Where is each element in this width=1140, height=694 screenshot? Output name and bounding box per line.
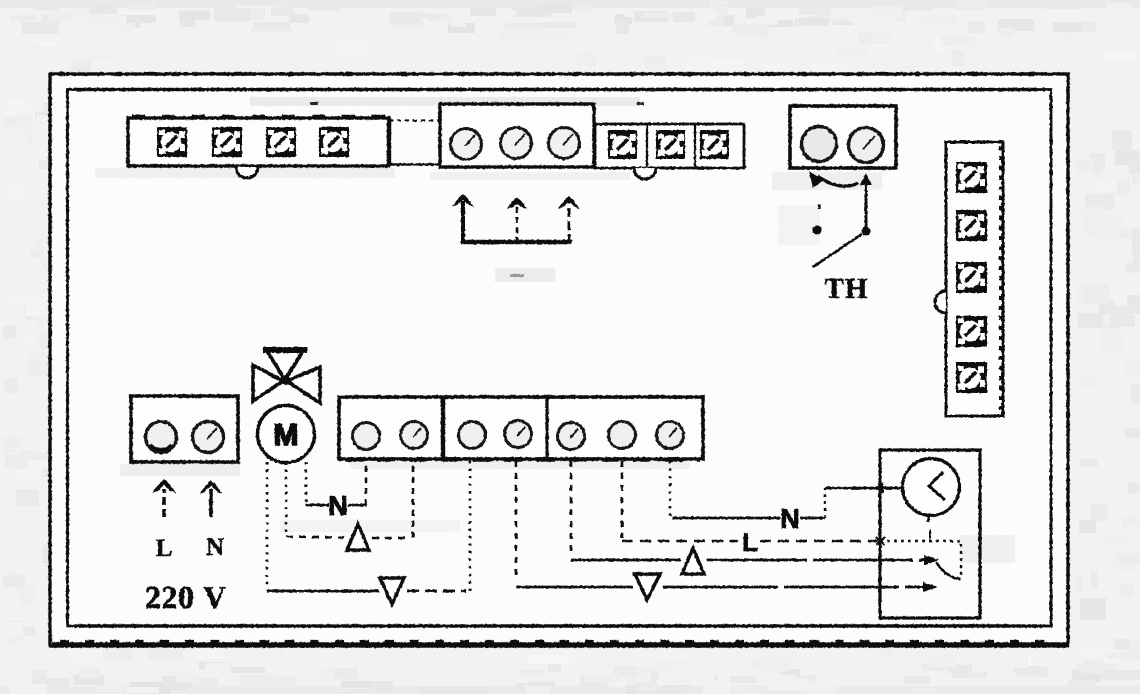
junction tick L at box edge <box>876 537 885 545</box>
wire to clock (lower) <box>663 586 925 589</box>
wire L inside clock box (dotted) <box>880 541 961 579</box>
wire drop X5-4 (dashed) <box>515 461 518 581</box>
symbol triangle down 2 (open) <box>635 574 660 600</box>
arrow into clock (lower) <box>923 582 938 592</box>
arrow group to X2 (three supply arrows) <box>452 194 580 243</box>
wire M middle lead (dotted) <box>285 462 288 535</box>
scan smudges (decorative) <box>95 97 1015 563</box>
wire drop X5-5 (dashed) <box>570 461 573 556</box>
wire dashed from triangle <box>372 537 410 540</box>
wire riser to clock motor (dotted) <box>824 488 826 518</box>
label L <box>156 540 171 556</box>
symbol triangle down (open) <box>380 578 404 604</box>
cable bump under X1 <box>236 167 258 178</box>
3-way valve symbol <box>253 350 320 403</box>
cable bump under X3 <box>634 168 656 179</box>
wire <box>348 504 366 507</box>
wire dashed to triangle up <box>286 537 344 538</box>
wire M right lead (dotted) <box>305 462 308 504</box>
mains arrows L N <box>152 479 222 517</box>
programmer/clock box <box>880 450 980 618</box>
wire to triangle down 2 <box>516 586 633 589</box>
wire riser to X5-1 (dashed) <box>365 461 368 505</box>
mains terminal block 220V <box>131 396 238 462</box>
wire M left lead (dotted) <box>266 462 269 590</box>
terminal strip X5 (7 screw terminals) <box>339 397 703 460</box>
inner frame <box>68 90 1052 627</box>
arrow into clock (middle) <box>924 555 939 565</box>
wire drop X5-7 (dotted) <box>669 461 672 517</box>
wire L line continued (dashed) <box>760 540 878 543</box>
wire <box>800 517 825 520</box>
label N <box>206 539 223 555</box>
valve motor M <box>258 406 315 463</box>
terminal block X1 (4 clamp terminals) <box>128 117 441 166</box>
terminal block X3 (3 clamp terminals) <box>595 124 744 168</box>
wire dashed from triangle down <box>407 590 466 593</box>
label N (valve neutral) <box>330 496 346 515</box>
terminal block X2 (3 screw terminals) <box>440 104 594 167</box>
outer frame <box>50 74 1068 646</box>
clock face <box>903 459 960 540</box>
label TH <box>825 279 867 298</box>
wire drop X5-6 (dashed) <box>621 461 624 538</box>
terminal strip X4 (5 clamp terminals, right side) <box>946 142 1003 416</box>
junction tick at clock box edge <box>881 483 884 493</box>
label L (clock live) <box>744 533 757 551</box>
symbol triangle up (open) <box>347 524 369 550</box>
label 220 V <box>146 587 225 609</box>
wire riser to X5-3 (dotted) <box>469 461 472 591</box>
terminal block TH (room thermostat terminals) <box>790 106 896 168</box>
wire N line valve <box>306 504 329 507</box>
symbol triangle up 2 (open) <box>682 548 704 574</box>
clock lever <box>936 562 961 579</box>
wire to triangle up 2 <box>571 559 681 562</box>
cable bump left of X4 <box>935 291 946 313</box>
wire solid to triangle down <box>267 590 379 593</box>
wire L line (dashed) <box>622 540 738 543</box>
wire N line to clock <box>672 517 780 520</box>
wire riser to X5-2 (dashed) <box>412 461 415 538</box>
thermostat switch TH <box>809 171 872 267</box>
wire into clock motor <box>825 487 902 490</box>
label N (clock neutral) <box>782 509 798 528</box>
wire to clock (middle) <box>707 559 926 562</box>
